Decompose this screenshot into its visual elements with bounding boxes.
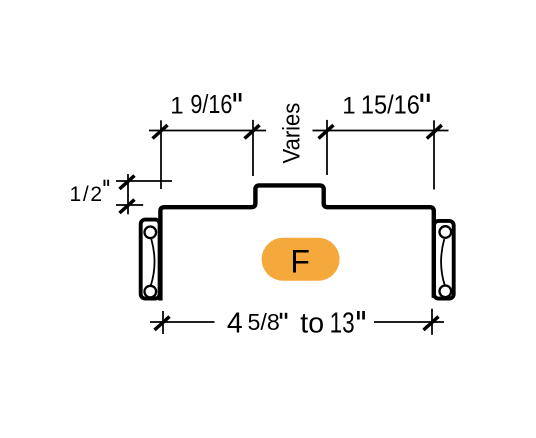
svg-text:15/16: 15/16 (361, 91, 420, 119)
svg-text:1/2: 1/2 (70, 183, 104, 206)
svg-text:1: 1 (170, 93, 183, 120)
svg-text:9/16: 9/16 (190, 91, 232, 119)
svg-text:1: 1 (342, 93, 355, 120)
svg-text:13: 13 (330, 308, 355, 340)
svg-text:5/8: 5/8 (248, 309, 280, 335)
svg-text:Varies: Varies (278, 103, 305, 164)
svg-text:F: F (290, 244, 310, 280)
svg-text:to: to (300, 308, 324, 340)
svg-text:4: 4 (227, 308, 243, 340)
